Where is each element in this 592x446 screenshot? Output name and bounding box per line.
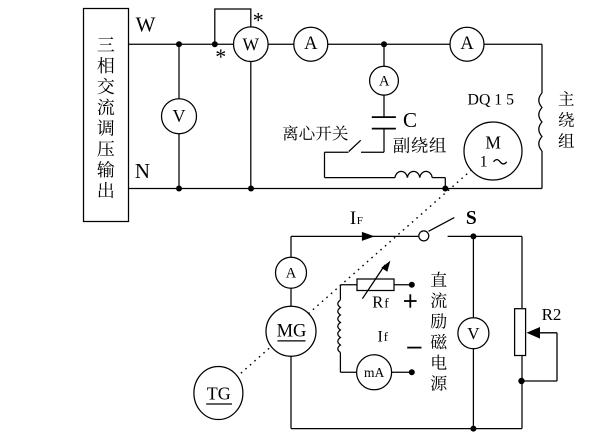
label IF [350,208,363,229]
label + [404,294,417,307]
svg-text:A: A [304,34,318,54]
voltmeter V1 [162,99,197,134]
wire A4 to MG [290,288,292,306]
rheostat R2 wiper arrow [527,327,558,339]
svg-text:M: M [485,133,501,153]
wire down to field coil [339,285,341,300]
ammeter A1 [294,27,328,61]
node: junction W1 bottom [248,186,254,192]
rheostat Rf body [357,279,394,291]
svg-text:MG: MG [277,322,307,342]
label 三相交流调压输出 (three-phase AC voltage-regulated output) [97,37,114,198]
ammeter A3 (auxiliary) [370,66,399,95]
wire R2 wiper return [521,333,557,381]
wire W1 to A1 [268,43,294,45]
svg-text:W: W [136,12,156,36]
wire MG down to bottom rail [290,356,292,428]
rheostat R2 body [515,309,526,356]
wire right corner down to R2 [521,236,523,308]
node: junction aux winding / N rail [442,186,448,192]
wire armature top rail [291,235,418,237]
svg-text:A: A [460,34,474,54]
svg-text:V: V [467,324,480,343]
svg-text:S: S [466,208,477,229]
current arrow IF [362,232,375,241]
switch S hinge circle [419,231,429,241]
node: junction V1 bottom [176,186,182,192]
ammeter A2 (main winding) [450,27,484,61]
label If [378,328,389,345]
generator MG [266,306,316,356]
wire switch to right corner [448,235,522,237]
svg-text:V: V [173,106,186,126]
wire capacitor to switch [383,129,385,152]
svg-text:*: * [215,44,226,69]
inductor main winding (vertical coil) [539,93,542,151]
svg-text:I: I [378,328,383,345]
switch S blade [429,218,455,232]
node: - terminal [409,369,415,375]
node: junction V2 bottom [470,426,476,432]
wire W-phase top rail [129,43,234,45]
label - [407,347,421,349]
node: junction V2 top [470,233,476,239]
wire junction to A3 [383,44,385,66]
wire V1 bottom [178,134,180,189]
wire V2 bottom [472,349,474,429]
label 副绕组 (auxiliary winding) [393,137,445,153]
wire aux winding to N rail [432,177,445,179]
wire wattmeter voltage-coil loop [215,9,251,44]
wire N bottom rail [129,188,542,190]
svg-text:W: W [243,34,260,54]
wire mA to - terminal [392,371,412,373]
label 直流励磁电源 (DC excitation supply) [431,272,447,391]
svg-text:*: * [253,7,264,32]
node: junction auxiliary branch [381,41,387,47]
wire top-left down to A4 [290,236,292,257]
wire switch down [324,152,326,177]
node: junction wattmeter voltage coil [212,41,218,47]
three-phase AC source box [84,9,129,222]
wire right rail upper [541,44,543,93]
node: junction V branch [176,41,182,47]
wire A1 to A2 [328,43,450,45]
wire A3 to capacitor [383,95,385,116]
svg-text:TG: TG [207,384,231,404]
wire switch right segment [361,151,384,153]
centrifugal switch blade [349,140,361,151]
svg-text:mA: mA [364,365,385,380]
milliammeter mA [357,355,392,390]
tachogenerator TG [194,367,243,420]
node: + terminal [409,282,415,288]
svg-text:N: N [135,159,150,183]
motor M1 (single-phase) [464,122,522,180]
svg-text:R2: R2 [542,305,562,324]
capacitor C plates [372,117,396,129]
svg-text:I: I [350,208,356,229]
wattmeter W1 [234,27,269,62]
wire W1 down to N rail [250,62,252,189]
wire A2 to right rail [484,43,542,45]
label Rf [372,293,389,312]
wire field coil to mA [339,353,341,373]
wire V1 top [178,44,180,98]
wire to auxiliary winding [325,177,396,179]
voltmeter V2 [458,318,489,349]
svg-text:DQ 1 5: DQ 1 5 [468,92,515,109]
wire Rf right to + terminal [394,284,412,286]
wire V2 top [472,236,474,317]
label 离心开关 (centrifugal switch) [283,125,348,140]
svg-text:A: A [286,266,297,282]
rheostat Rf arrow [362,261,390,299]
node: R2 wiper return junction [518,378,524,384]
wire armature bottom rail [291,428,522,430]
inductor auxiliary winding (coil) [395,171,432,177]
wire Rf left [340,284,357,286]
wire R2 to bottom rail [521,356,523,429]
dotted shaft coupling line TG-MG-M [218,151,493,393]
wire right rail lower [541,151,543,189]
svg-text:R: R [372,293,383,312]
svg-text:f: f [384,295,389,310]
inductor field winding (vertical coil) [338,300,341,353]
svg-text:C: C [403,108,417,132]
svg-text:A: A [379,73,390,89]
wire switch left segment [325,151,349,153]
ammeter A4 (armature) [276,257,307,288]
label 主绕组 (main winding) [559,91,574,147]
svg-text:F: F [357,215,363,227]
svg-text:1: 1 [480,154,488,171]
